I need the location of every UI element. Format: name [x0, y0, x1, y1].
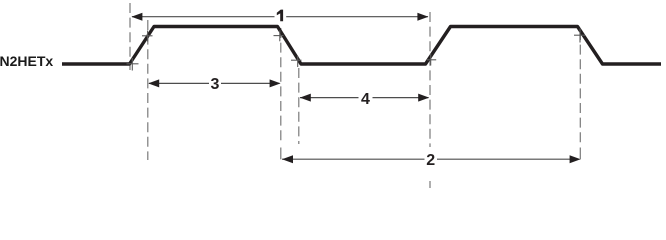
- dimension 1 right arrowhead: [417, 13, 428, 21]
- dimension 4 right arrowhead: [418, 94, 429, 102]
- dimension 3 line: [149, 82, 280, 84]
- svg-text:4: 4: [361, 91, 370, 108]
- dimension 4 left arrowhead: [300, 94, 311, 102]
- dashed line t1-end / t4-end (x=430): [429, 12, 431, 147]
- cross tick rise1 low: [127, 58, 139, 71]
- cross tick fall1 low: [291, 56, 302, 67]
- svg-text:3: 3: [211, 76, 220, 93]
- dimension 3 left arrowhead: [148, 79, 159, 87]
- waveform N2HETx: [62, 27, 661, 65]
- dimension 1 label: [277, 10, 283, 22]
- cross tick fall1 high: [274, 30, 284, 41]
- dimension 2 right arrowhead: [570, 155, 581, 163]
- dimension 3 right arrowhead: [270, 79, 281, 87]
- cross tick rise2 low: [427, 54, 436, 66]
- dashed line t3-start (x=147.8): [147, 20, 149, 160]
- dashed line t3-end / t2-start (x=280.8): [280, 28, 282, 143]
- dimension 1 line: [132, 16, 428, 18]
- dashed line t2-end (x=580.3): [579, 30, 581, 143]
- svg-text:N2HETx: N2HETx: [0, 53, 53, 69]
- dimension 2 line: [282, 158, 579, 160]
- dashed line t4-start (x=298.8): [298, 68, 300, 144]
- dimension 4 line: [300, 97, 429, 99]
- cross tick fall2 high: [574, 29, 585, 43]
- dimension 1 left arrowhead: [131, 13, 142, 21]
- cross tick rise1 high: [142, 31, 153, 42]
- dimension 2 left arrowhead: [282, 155, 293, 163]
- dashed line t1-start (x=130): [129, 3, 131, 70]
- svg-text:2: 2: [426, 152, 435, 169]
